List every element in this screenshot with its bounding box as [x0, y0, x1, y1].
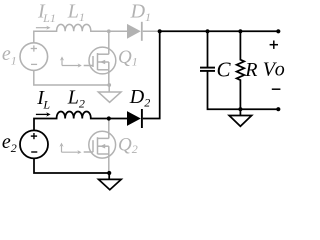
svg-text:D2: D2	[129, 86, 150, 110]
svg-text:Q2: Q2	[118, 135, 138, 157]
svg-text:R: R	[244, 59, 257, 81]
svg-text:Vo: Vo	[263, 59, 287, 81]
svg-text:D1: D1	[130, 0, 151, 24]
svg-text:e1: e1	[2, 43, 17, 67]
svg-text:L2: L2	[67, 87, 85, 111]
svg-text:Q1: Q1	[118, 47, 138, 69]
svg-text:IL1: IL1	[37, 0, 56, 25]
svg-text:L1: L1	[67, 0, 85, 24]
svg-text:e2: e2	[2, 131, 17, 155]
svg-text:IL: IL	[36, 87, 50, 112]
svg-text:C: C	[217, 58, 232, 82]
